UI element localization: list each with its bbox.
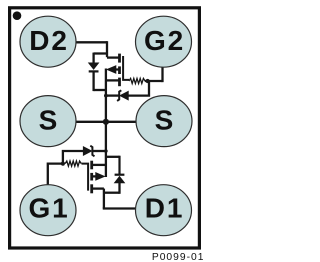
svg-text:P0099-01: P0099-01: [152, 252, 205, 262]
transistor Q1 (lower P-channel MOSFET): [82, 161, 106, 194]
wire: source/body trunk: [105, 69, 107, 178]
body diode of Q2: [89, 53, 99, 92]
wire: diode D1 top link from trunk: [106, 156, 120, 158]
pin D1: [136, 185, 192, 236]
body diode of Q1: [115, 156, 125, 194]
wire: S rail: [76, 121, 136, 123]
wire: zener Z2 drop from gate node: [128, 81, 149, 96]
wire: drain to D1: [103, 207, 136, 209]
wire: drain feed vertical of Q2: [106, 41, 108, 57]
wire: zener Z1 riser from gate node: [63, 151, 83, 165]
junction dot gate node Q1: [61, 162, 65, 166]
Q1 source stub: [93, 164, 106, 166]
svg-text:D1: D1: [145, 193, 184, 224]
Q2 channel bars: [118, 54, 121, 63]
resistor R2 (gate resistor of Q2): [129, 78, 145, 83]
wire: resistor R2 to G2: [145, 80, 163, 82]
package outline frame: [10, 8, 200, 248]
zener diode Z2 (gate protection of Q2): [106, 90, 128, 101]
svg-text:G1: G1: [29, 193, 70, 224]
wire: Q1 drain drop: [103, 189, 105, 209]
Q1 body arrow: [96, 173, 105, 180]
wire: G2 drop: [161, 66, 163, 82]
junction dot trunk/zener Q2: [104, 94, 108, 98]
Q2 body arrow: [107, 66, 116, 73]
junction dot trunk/zener Q1: [104, 149, 108, 153]
pin S (left): [20, 96, 76, 147]
svg-text:D2: D2: [29, 25, 68, 56]
Q1 channel bars: [90, 161, 93, 170]
pin 1 indicator dot: [13, 11, 22, 20]
wire: D2 to drain feed: [76, 41, 107, 43]
svg-text:S: S: [39, 105, 58, 136]
wire: diode D2 top branch: [94, 52, 107, 54]
pin G1: [20, 185, 76, 236]
svg-text:S: S: [155, 105, 174, 136]
wire: G1 feed: [48, 164, 62, 186]
Q1 drain stub: [93, 187, 104, 189]
junction dot S rail: [103, 119, 109, 125]
Q1 gate line: [82, 164, 89, 191]
Q2 source stub: [106, 79, 119, 81]
Q2 drain stub: [107, 56, 119, 58]
pin D2: [20, 16, 76, 67]
zener diode Z1 (gate protection of Q1): [83, 146, 106, 157]
junction dot gate node Q2: [146, 79, 150, 83]
pin G2: [136, 16, 192, 67]
svg-text:G2: G2: [144, 25, 185, 56]
Q2 gate line: [123, 56, 129, 80]
pin S (right): [136, 96, 192, 147]
wire: diode D1 bottom link: [104, 192, 120, 194]
resistor R1 (gate resistor of Q1): [65, 161, 81, 166]
wire: diode D2 bottom link to trunk: [94, 89, 106, 91]
transistor Q2 (upper P-channel MOSFET): [106, 54, 129, 87]
